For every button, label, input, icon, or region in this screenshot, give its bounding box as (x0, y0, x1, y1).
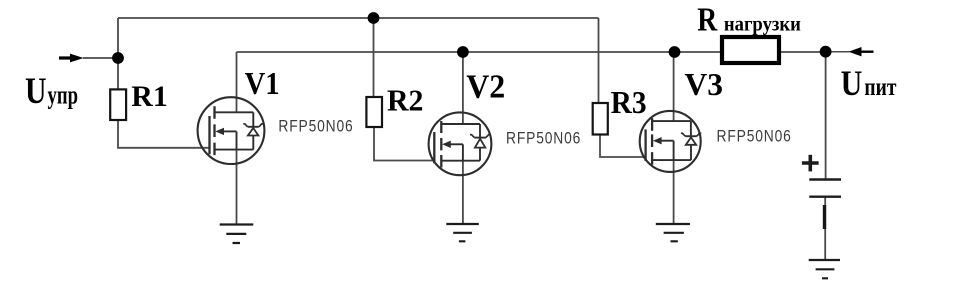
svg-text:RFP50N06: RFP50N06 (506, 129, 581, 147)
svg-text:V2: V2 (466, 68, 505, 105)
svg-text:упр: упр (48, 81, 79, 110)
svg-text:RFP50N06: RFP50N06 (717, 127, 792, 145)
svg-text:V3: V3 (685, 66, 724, 102)
svg-text:R1: R1 (131, 81, 168, 113)
svg-text:U: U (25, 70, 47, 111)
svg-text:V1: V1 (245, 65, 280, 101)
svg-text:RFP50N06: RFP50N06 (278, 117, 353, 135)
svg-text:R3: R3 (611, 85, 647, 120)
svg-text:R: R (697, 2, 717, 39)
svg-text:R2: R2 (387, 84, 424, 118)
svg-text:пит: пит (864, 74, 896, 101)
svg-text:нагрузки: нагрузки (724, 12, 801, 36)
svg-text:U: U (841, 63, 863, 103)
